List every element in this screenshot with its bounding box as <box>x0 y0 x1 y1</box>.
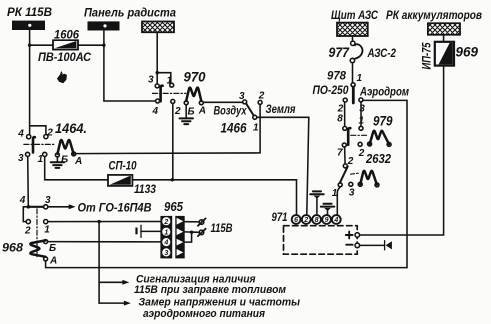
wire connector down to 970 pin 3 <box>156 32 158 84</box>
svg-text:968: 968 <box>2 241 23 255</box>
svg-text:1: 1 <box>167 76 173 87</box>
svg-text:Б: Б <box>61 155 68 166</box>
svg-text:8: 8 <box>337 113 343 124</box>
coil 1464 <box>55 140 82 167</box>
svg-text:9: 9 <box>325 217 329 224</box>
svg-text:СП-10: СП-10 <box>109 161 138 173</box>
wire Панель bus down and right to 970 pin 4 <box>104 31 155 102</box>
svg-text:2: 2 <box>174 106 181 117</box>
svg-text:1: 1 <box>253 123 259 134</box>
wire plus to 969 <box>360 66 444 235</box>
wire fuse line <box>30 44 104 46</box>
node fuse branch left <box>28 44 31 47</box>
terminal plus <box>346 232 360 239</box>
wire ПО-250 pin 3 down to 979 <box>360 102 362 126</box>
svg-text:8: 8 <box>315 217 319 224</box>
wire 965 pin 4 loop <box>185 232 192 242</box>
svg-text:2: 2 <box>358 148 365 159</box>
svg-text:4: 4 <box>19 195 26 206</box>
node 965 pin4 tie <box>190 231 193 234</box>
svg-text:1: 1 <box>359 116 365 127</box>
wire 1466 pin 2 to 1464 А <box>76 105 260 154</box>
connector ПО-250 <box>313 83 363 103</box>
svg-text:4: 4 <box>152 106 159 117</box>
wire 965 pin 2 to 115В terminal <box>185 221 200 223</box>
ground at 971-9 <box>321 204 335 215</box>
svg-text:3: 3 <box>45 195 51 206</box>
wire РК акк down <box>443 35 445 42</box>
svg-text:3: 3 <box>164 250 168 257</box>
svg-text:АЗС-2: АЗС-2 <box>367 46 397 60</box>
connector РК аккумуляторов <box>428 23 460 35</box>
wire 970 pin 2 down <box>172 104 174 180</box>
svg-text:977: 977 <box>329 45 351 60</box>
connector Панель радиста <box>142 22 174 33</box>
connector 965 <box>160 200 184 258</box>
svg-text:971: 971 <box>272 212 288 224</box>
terminal strip 971 <box>292 215 341 224</box>
wire 965 pin 1 to 115В terminal <box>185 231 200 233</box>
relay 1464 <box>17 121 87 165</box>
switch 2632 <box>332 152 391 199</box>
svg-text:979: 979 <box>373 114 393 129</box>
coil 979 <box>368 131 392 147</box>
wire 979 pin 7 down to 2632 <box>344 147 347 164</box>
svg-text:ИП-75: ИП-75 <box>422 42 434 69</box>
svg-text:115В при заправке топливом: 115В при заправке топливом <box>134 284 287 296</box>
wire 968 pin 1 to connector 965 pin 2 <box>48 221 160 223</box>
svg-text:1466: 1466 <box>221 121 247 136</box>
terminal 115В upper <box>198 218 206 225</box>
svg-text:РК аккумуляторов: РК аккумуляторов <box>386 10 482 22</box>
connector Щит АЗС <box>337 23 368 36</box>
switch 1466 Воздух-Земля <box>214 90 296 135</box>
relay 968 contact <box>19 195 51 257</box>
breaker 977 АЗС-2 <box>329 41 397 63</box>
bus РК 115В <box>12 21 45 30</box>
svg-text:3: 3 <box>148 75 154 86</box>
svg-text:2: 2 <box>24 226 31 237</box>
coil 2632 <box>358 171 379 187</box>
meter 969 ИП-75 <box>422 42 479 70</box>
svg-text:Б: Б <box>188 107 195 118</box>
svg-text:969: 969 <box>456 45 479 60</box>
svg-text:1133: 1133 <box>134 184 157 196</box>
coil 970 <box>184 88 206 118</box>
svg-text:аэродромного питания: аэродромного питания <box>143 308 265 320</box>
terminal 115В lower <box>198 229 206 236</box>
wire ПО-250 pin 2 down to 979 <box>344 102 346 126</box>
wire РК bus down to relay 1464 <box>29 30 31 135</box>
svg-text:2: 2 <box>258 90 265 101</box>
svg-text:Аэродром: Аэродром <box>359 87 409 99</box>
svg-text:А: А <box>74 156 82 167</box>
plug symbol minus <box>385 241 392 250</box>
wire arrow signal 2 <box>99 301 131 306</box>
svg-text:4: 4 <box>17 128 24 139</box>
wire minus to plug <box>360 244 384 246</box>
terminal minus <box>346 243 359 248</box>
wire 2632 pin 1 to terminal 971-4 <box>337 187 340 215</box>
svg-text:965: 965 <box>164 200 184 214</box>
wire fuse 1133 to terminal 971-6 <box>132 180 296 215</box>
svg-text:Земля: Земля <box>266 104 296 116</box>
svg-text:1: 1 <box>357 73 363 84</box>
svg-text:От ГО-16П4В: От ГО-16П4В <box>78 203 152 215</box>
relay 970 <box>148 70 206 118</box>
svg-text:2: 2 <box>163 219 168 226</box>
ground at 971-8 <box>310 191 324 215</box>
svg-text:2: 2 <box>303 217 308 224</box>
svg-text:ПО-250: ПО-250 <box>313 85 350 97</box>
svg-text:2632: 2632 <box>365 152 391 166</box>
svg-text:1464.: 1464. <box>55 121 87 136</box>
wire arrow От ГО-16П4В <box>48 204 76 209</box>
wire 970 А to switch 1466 <box>203 101 242 103</box>
svg-text:3: 3 <box>18 153 24 164</box>
svg-text:978: 978 <box>327 69 346 83</box>
svg-text:1: 1 <box>38 154 44 165</box>
svg-text:1606: 1606 <box>54 28 79 42</box>
svg-text:6: 6 <box>294 217 298 224</box>
ground 970 <box>180 105 194 124</box>
wire Щит АЗС down <box>352 36 354 41</box>
svg-text:2: 2 <box>46 128 53 139</box>
battery box dashed <box>284 226 358 255</box>
svg-text:ПВ-100АС: ПВ-100АС <box>38 50 91 64</box>
svg-text:115В: 115В <box>211 221 233 235</box>
node fuse branch right <box>102 44 105 47</box>
wire 968 Б to connector 965 pin 4 <box>48 241 161 243</box>
svg-text:Замер напряжения и частоты: Замер напряжения и частоты <box>139 296 301 308</box>
svg-text:РК 115В: РК 115В <box>7 5 52 19</box>
bus Панель радиста <box>88 21 120 30</box>
coil 968 <box>2 240 57 267</box>
node 970-2 junction <box>171 178 174 181</box>
svg-text:1: 1 <box>44 225 50 236</box>
svg-text:3: 3 <box>359 103 365 114</box>
svg-text:А: А <box>198 106 206 117</box>
wire bracket to 970 pin 1 <box>157 73 171 83</box>
fuse 1133 СП-10 <box>108 175 132 186</box>
svg-text:4: 4 <box>333 217 338 224</box>
svg-text:Воздух: Воздух <box>214 106 247 118</box>
wire bracket to 1464 pin 2 <box>30 126 46 135</box>
svg-text:1: 1 <box>164 229 168 236</box>
svg-text:3: 3 <box>239 91 245 102</box>
wire breaker to ПО-250 <box>352 63 354 83</box>
arrow mark <box>57 71 67 83</box>
svg-text:Щит АЗС: Щит АЗС <box>331 10 379 22</box>
svg-text:А: А <box>49 255 57 266</box>
wire annunciator drop <box>98 222 100 304</box>
wire 968 А long run to Аэродром <box>46 100 407 267</box>
ground 1464 <box>51 157 64 168</box>
wire 1464 pin 1 down to fuse 1133 line <box>45 157 108 180</box>
svg-text:970: 970 <box>184 70 206 85</box>
node 970 branch <box>156 71 159 74</box>
node annunciator branch <box>97 220 100 223</box>
svg-text:3: 3 <box>349 187 355 198</box>
fuse 1606 <box>53 40 78 49</box>
svg-text:7: 7 <box>337 148 343 159</box>
relay 979 <box>337 103 393 159</box>
wire 1464 pin 3 down to 968 <box>27 157 30 205</box>
wire arrow signal 1 <box>99 280 129 285</box>
plug symbol at 965 pin 1 <box>135 225 160 237</box>
svg-text:4: 4 <box>163 240 168 247</box>
svg-text:Б: Б <box>49 243 56 254</box>
svg-text:Панель радиста: Панель радиста <box>84 8 177 20</box>
wire 1466 pin 1 to terminal 971-2 <box>257 117 309 214</box>
